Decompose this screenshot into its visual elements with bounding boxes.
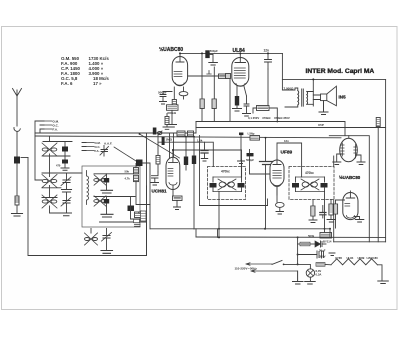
antenna coil L3 (F.A.) (42, 195, 57, 208)
B+ line to right frame (282, 78, 385, 80)
oscillator coil L4 (tall winding) (87, 171, 89, 205)
cathode resistor R12 (233, 96, 242, 111)
svg-text:50k: 50k (125, 170, 130, 174)
resistor R14 (on right frame) (376, 118, 380, 127)
svg-text:17 »: 17 » (93, 81, 102, 86)
rectifier tube UY85 (333, 136, 365, 165)
mains switch (272, 261, 310, 266)
svg-text:U5P: U5P (318, 123, 324, 127)
output transformer 7000ohm (284, 87, 314, 108)
dropper resistor RS (316, 263, 331, 267)
IF pentode UF89 (270, 159, 284, 195)
svg-text:0,1 350V: 0,1 350V (248, 116, 259, 120)
svg-text:470: 470 (56, 164, 61, 168)
svg-text:F.A.: F.A. (53, 128, 59, 132)
L56p box (248, 132, 260, 141)
svg-text:½UABC80: ½UABC80 (339, 175, 361, 180)
svg-text:A.A.F.: A.A.F. (104, 142, 113, 146)
svg-text:UL84: UL84 (233, 48, 245, 54)
grid diagonal to UCH81 (140, 134, 180, 158)
electrolytic caps 50+50 (298, 249, 335, 259)
AVC bus (150, 228, 330, 230)
antenna (12, 89, 23, 217)
svg-text:7.000Ω: 7.000Ω (284, 87, 295, 91)
svg-text:470kΩ: 470kΩ (262, 116, 271, 120)
svg-text:350V: 350V (319, 255, 326, 259)
svg-text:UF89: UF89 (281, 150, 293, 156)
capacitor C8 (UCH81 grid) (151, 172, 159, 185)
wires into mixer (147, 133, 174, 256)
junction dots (172, 52, 331, 265)
UF89 grid cap C14 (238, 133, 255, 164)
component cluster (ratio det) (177, 131, 194, 136)
bottom coil L7 (85, 229, 98, 246)
osc coil L6 (94, 196, 106, 206)
small resistor R7 (163, 114, 171, 130)
resistors R9 R10 (detector loads) (196, 53, 345, 135)
padding cap C2 (56, 156, 69, 170)
tuning gang diagonal link (114, 147, 136, 161)
heater chain labels (335, 256, 378, 260)
detector load resistors (309, 200, 317, 223)
svg-text:IN5: IN5 (339, 95, 347, 100)
triode 1/2 UABC80 V1 (172, 53, 187, 85)
grid wire into UF89 (250, 159, 271, 174)
svg-text:500pF: 500pF (210, 49, 218, 53)
grid resistor R13 (333, 200, 344, 228)
B+ feed to transformer (282, 53, 295, 90)
svg-text:0,3A: 0,3A (316, 273, 322, 277)
svg-text:12n: 12n (284, 139, 289, 143)
svg-text:470kc: 470kc (221, 170, 230, 174)
mains input arrows + label (235, 263, 298, 273)
svg-text:110-220V∼50Hz: 110-220V∼50Hz (235, 267, 258, 271)
cap C11 (AF input) (158, 91, 172, 105)
antenna coil L2 (O.C.) (42, 175, 57, 188)
osc coil L5 (94, 175, 106, 185)
resistor R8 (plate load) (205, 49, 218, 65)
svg-text:470kc: 470kc (305, 171, 314, 175)
band switch wafer S2 (82, 141, 101, 153)
audio line to output (196, 121, 386, 133)
rectifier box top (329, 136, 369, 242)
resistor (dark) on AF bus (153, 128, 173, 146)
resistor R5 (192, 137, 196, 229)
osc trimmer C6 (101, 197, 113, 218)
svg-text:UCH81: UCH81 (152, 189, 168, 194)
resistor R6 (AOS box) (173, 196, 183, 210)
cap C7 + ground (101, 229, 113, 254)
resistor R11 (172, 87, 176, 108)
coupling cap C13 12n (264, 49, 272, 70)
svg-text:F.A. 6: F.A. 6 (61, 81, 73, 86)
output pentode UL84 (232, 53, 249, 96)
cathode bypass cap C12 (243, 96, 251, 116)
screen line + bypass cap C9 (158, 139, 213, 167)
triode 1/2 UABC80 V2 (343, 191, 364, 222)
tuning gang trimmer (100, 146, 109, 157)
grid resistor row 470k (248, 69, 290, 122)
plate feed wire UCH81 (173, 150, 242, 160)
UF89 plate to IFT2 (277, 143, 302, 177)
svg-text:4,7k: 4,7k (125, 177, 131, 181)
wires left coil chain (50, 154, 61, 213)
grid stopper box (226, 74, 231, 79)
svg-text:BY114: BY114 (323, 240, 332, 244)
bus link verticals (196, 229, 330, 265)
diode BY114 (315, 240, 332, 248)
triode-heptode UCH81 (166, 157, 180, 196)
heater chain resistance wire (331, 259, 388, 284)
svg-text:500pF: 500pF (246, 158, 254, 162)
trimmer C1 (43, 142, 72, 157)
mains bus (196, 236, 386, 238)
frequency table (61, 56, 109, 86)
fuse box (298, 242, 315, 246)
speaker IN5 (313, 79, 336, 114)
trimmer C3 (42, 173, 82, 201)
trimmer C4 (42, 198, 72, 216)
band switch wafer S1 (35, 120, 59, 181)
IF transformer IFT2 470kc (289, 167, 334, 233)
svg-text:50µF: 50µF (319, 249, 326, 253)
cap C15 (320, 206, 326, 219)
pilot lamp 6,3V (305, 264, 322, 284)
svg-text:INTER Mod. Capri MA: INTER Mod. Capri MA (306, 68, 375, 75)
antenna coil L1 (O.M.) (42, 136, 57, 156)
cathode oval (179, 87, 188, 99)
vol pot box 500k (308, 233, 332, 239)
diode row caps/res (188, 71, 230, 122)
volume pot box (167, 105, 179, 127)
top coupling wire (180, 52, 282, 54)
oscillator section box (82, 166, 140, 227)
padder caps (osc) (100, 197, 147, 227)
svg-text:L56p: L56p (248, 132, 255, 136)
svg-text:12n: 12n (264, 49, 270, 53)
tuning cap rotor blob (136, 160, 150, 229)
resistor R4 (screen) (184, 137, 188, 170)
IF transformer IFT1 470kc (208, 160, 246, 237)
svg-text:F.A.: F.A. (95, 149, 100, 153)
screen feed + bypass cap (260, 138, 273, 229)
trimmer box (padder) (141, 211, 147, 221)
right frame verticals (334, 79, 386, 241)
svg-text:½UABC80: ½UABC80 (159, 46, 183, 53)
resistor R3 (UCH81 grid) (156, 156, 160, 173)
osc trimmer C5 (101, 174, 113, 193)
svg-text:370kΩ 350V: 370kΩ 350V (274, 116, 290, 120)
svg-text:1MΩ: 1MΩ (166, 138, 173, 142)
ground under mains (293, 271, 304, 284)
resistors R1 R2 (osc feed) (94, 164, 150, 205)
top bus wires (left section) (21, 133, 341, 256)
UF89 cathode oval + return line (200, 136, 285, 215)
